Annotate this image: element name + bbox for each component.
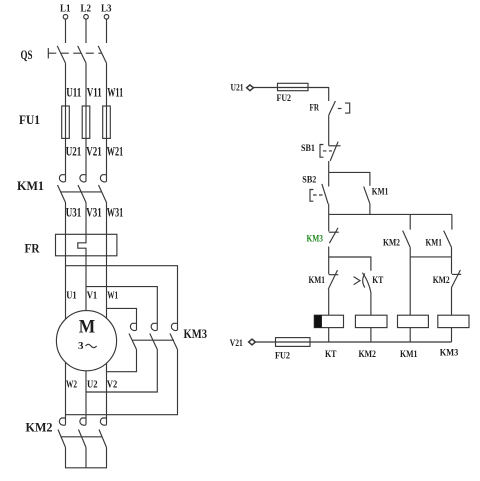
thermal contact FR dash bbox=[338, 108, 342, 110]
coil KM3 body bbox=[438, 315, 469, 327]
node L3 label bbox=[101, 3, 112, 15]
node W2 label bbox=[66, 380, 77, 391]
node U2 label bbox=[87, 380, 98, 391]
thermal relay FR box bbox=[56, 234, 117, 256]
svg-text:W21: W21 bbox=[107, 144, 124, 159]
contactor KM3 pole 1 hook bbox=[130, 323, 136, 330]
contactor KM3 linkage bbox=[132, 339, 174, 341]
svg-text:U21: U21 bbox=[66, 144, 82, 159]
svg-text:U21: U21 bbox=[231, 83, 244, 93]
motor 3-phase mark bbox=[78, 340, 97, 352]
contactor KM2 pole 2 hook bbox=[80, 418, 86, 425]
wire KT contact to KM2 coil bbox=[370, 293, 372, 316]
fuse FU1 element phase B bbox=[82, 106, 90, 138]
contactor KM1 pole 1 blade bbox=[58, 185, 66, 203]
contactor KM1 label bbox=[17, 178, 44, 193]
svg-text:KM1: KM1 bbox=[17, 178, 44, 193]
wire KM2 parallel to junction C bbox=[409, 247, 411, 257]
svg-text:KT: KT bbox=[325, 349, 337, 359]
wire junction C bar bbox=[410, 256, 451, 258]
thermal contact FR blade bbox=[329, 101, 336, 115]
contactor KM2 pole 3 hook bbox=[100, 418, 106, 425]
coil KT body bbox=[314, 315, 343, 327]
wire bottom rail bbox=[255, 341, 451, 343]
wire KM3 pole 3 to node V2 bbox=[66, 350, 178, 415]
node V11 label bbox=[87, 85, 102, 100]
wire junction to SB2 bbox=[328, 172, 330, 186]
svg-text:KM2: KM2 bbox=[26, 420, 53, 435]
wire branch W-phase to KM3 pole 1 bbox=[107, 308, 137, 330]
coil KM3 label bbox=[440, 348, 459, 358]
contactor KM3 pole 3 hook bbox=[171, 323, 177, 330]
fuse FU1 element phase A bbox=[62, 106, 70, 138]
fuse FU1 label bbox=[19, 112, 40, 127]
contact KM1 self-hold label bbox=[372, 186, 389, 196]
switch QS handle tick bbox=[47, 48, 49, 59]
node V21 control label bbox=[230, 338, 243, 348]
wire KM3 pole 2 to node W2 bbox=[86, 350, 157, 393]
coil KM2 body bbox=[355, 315, 387, 327]
wire QS to KM1 phase B bbox=[85, 63, 87, 181]
wire KM2 interlock to KM3 coil bbox=[451, 287, 453, 315]
wire KM1 lower to KT coil bbox=[328, 289, 330, 315]
svg-text:U31: U31 bbox=[66, 205, 82, 220]
pushbutton SB1 linkage dashes bbox=[323, 150, 332, 152]
svg-text:FR: FR bbox=[310, 103, 320, 113]
svg-text:U2: U2 bbox=[87, 380, 98, 391]
contact KM2 interlock wire top bbox=[451, 257, 453, 274]
thermal relay FR phase B heater jog bbox=[78, 234, 86, 256]
wire FR to motor V1 bbox=[85, 256, 87, 311]
svg-text:SB2: SB2 bbox=[302, 175, 316, 185]
svg-text:KM3: KM3 bbox=[307, 234, 324, 244]
wire FR to motor U1 bbox=[65, 256, 67, 319]
svg-text:FU2: FU2 bbox=[275, 351, 290, 361]
wire KM2 coil to rail bbox=[370, 328, 372, 342]
terminal U21 diamond bbox=[247, 85, 254, 91]
wire branch U-phase to KM3 pole 3 bbox=[66, 266, 178, 330]
svg-text:KM1: KM1 bbox=[426, 237, 443, 247]
timer contact KT blade bbox=[362, 273, 371, 293]
node L1 label bbox=[60, 3, 71, 15]
wire L2 to QS bbox=[85, 19, 87, 43]
switch QS label bbox=[21, 47, 33, 62]
contact KM3 interlock label green bbox=[307, 234, 324, 244]
svg-text:U1: U1 bbox=[66, 291, 77, 302]
wire SB1 to junction bbox=[328, 161, 330, 172]
node V2 label bbox=[107, 380, 118, 391]
node L2 label bbox=[81, 3, 92, 15]
node W11 label bbox=[107, 85, 123, 100]
svg-text:KM2: KM2 bbox=[433, 275, 450, 285]
svg-text:KM2: KM2 bbox=[383, 237, 400, 247]
coil KM1 body bbox=[398, 315, 429, 327]
svg-text:W1: W1 bbox=[107, 291, 118, 302]
contactor KM2 linkage bbox=[61, 436, 103, 438]
fuse FU2 bottom bbox=[276, 338, 311, 347]
switch QS linkage dashed bbox=[48, 52, 101, 54]
svg-text:FR: FR bbox=[25, 241, 41, 256]
svg-text:V21: V21 bbox=[230, 338, 243, 348]
svg-text:W11: W11 bbox=[107, 85, 123, 100]
contactor KM3 pole 2 hook bbox=[151, 323, 157, 330]
svg-text:KT: KT bbox=[372, 275, 383, 285]
wire motor W2 down bbox=[65, 362, 67, 424]
pushbutton SB1 label bbox=[301, 143, 315, 153]
contactor KM2 pole 1 blade bbox=[58, 430, 66, 448]
contact KM1 lower blade bbox=[328, 270, 337, 289]
contact KM1 parallel blade bbox=[444, 231, 452, 248]
contactor KM2 pole 3 blade bbox=[99, 430, 107, 448]
svg-text:QS: QS bbox=[21, 47, 33, 62]
svg-text:KM1: KM1 bbox=[309, 275, 326, 285]
timer contact KT chevron bbox=[354, 277, 360, 285]
svg-text:V21: V21 bbox=[86, 144, 102, 159]
svg-text:FU2: FU2 bbox=[277, 93, 292, 103]
contact KM1 lower label bbox=[309, 275, 326, 285]
svg-text:FU1: FU1 bbox=[19, 112, 40, 127]
contactor KM1 linkage bbox=[61, 191, 102, 193]
wire KM1 to FR phase A bbox=[65, 203, 67, 235]
contactor KM1 pole 3 blade bbox=[99, 185, 107, 203]
contact KM3 interlock blade bbox=[329, 228, 338, 243]
node U21 label bbox=[66, 144, 82, 159]
wire KM2 pole 2 to star bar bbox=[85, 447, 87, 467]
svg-text:V2: V2 bbox=[107, 380, 118, 391]
fuse FU2 top bbox=[278, 83, 309, 90]
thermal relay FR phase A through-wire bbox=[65, 234, 67, 256]
node W1 label bbox=[107, 291, 118, 302]
wire KM3 interlock to junction B bbox=[328, 247, 330, 258]
wire junction B to KT branch bbox=[329, 257, 371, 271]
contactor KM1 pole 2 blade bbox=[78, 185, 86, 203]
contact KM2 interlock label bbox=[433, 275, 450, 285]
wire KM1 to FR phase B bbox=[85, 203, 87, 235]
contactor KM2 label bbox=[26, 420, 53, 435]
node V21 label bbox=[86, 144, 102, 159]
wire FR to SB1 bbox=[328, 115, 330, 145]
wire rail node A bbox=[329, 213, 452, 215]
contact KM1 self-hold blade bbox=[364, 187, 370, 204]
contactor KM3 pole 2 blade bbox=[150, 334, 158, 350]
node U11 label bbox=[66, 85, 81, 100]
contact KM3 interlock wire top bbox=[328, 214, 330, 231]
thermal contact FR bracket bbox=[345, 103, 350, 113]
contact KM2 interlock bar bbox=[452, 273, 461, 275]
contact KM2 parallel blade bbox=[403, 231, 411, 248]
node U21 control label bbox=[231, 83, 244, 93]
terminal L3 bbox=[104, 14, 109, 19]
svg-text:V11: V11 bbox=[87, 85, 102, 100]
wire KM1 self-hold to rail bbox=[369, 204, 371, 215]
pushbutton SB2 bracket bbox=[310, 190, 313, 202]
fuse FU2 top label bbox=[277, 93, 292, 103]
contactor KM2 pole 2 blade bbox=[79, 430, 87, 448]
node W21 label bbox=[107, 144, 124, 159]
svg-text:SB1: SB1 bbox=[301, 143, 315, 153]
svg-text:L2: L2 bbox=[81, 3, 92, 15]
svg-text:U11: U11 bbox=[66, 85, 81, 100]
pushbutton SB2 linkage dashes bbox=[313, 194, 323, 196]
contactor KM3 pole 3 blade bbox=[170, 334, 178, 350]
fuse FU2 bottom label bbox=[275, 351, 290, 361]
contact KM2 parallel label bbox=[383, 237, 400, 247]
svg-text:KM2: KM2 bbox=[359, 349, 377, 359]
terminal V21 diamond bbox=[249, 339, 256, 345]
svg-text:KM3: KM3 bbox=[440, 348, 459, 358]
wire FR to motor W1 bbox=[106, 256, 108, 318]
svg-text:KM3: KM3 bbox=[184, 326, 208, 341]
wire QS to KM1 phase C bbox=[106, 63, 108, 181]
node U1 label bbox=[66, 291, 77, 302]
pushbutton SB1 bracket bbox=[320, 145, 323, 158]
node V1 label bbox=[87, 291, 98, 302]
coil KM1 label bbox=[400, 349, 418, 359]
wire L1 to QS bbox=[65, 19, 67, 43]
contactor KM3 label bbox=[184, 326, 208, 341]
thermal relay FR phase C through-wire bbox=[106, 234, 108, 256]
wire KM2 star bar bbox=[66, 447, 107, 467]
contact KM3 interlock bar bbox=[329, 231, 339, 233]
wire junction C to KM1 coil bbox=[409, 257, 411, 315]
svg-text:M: M bbox=[79, 317, 96, 338]
contact KM2 parallel wire top bbox=[409, 214, 411, 229]
switch QS pole 1 blade bbox=[57, 46, 65, 63]
wire motor U2 down bbox=[85, 371, 87, 425]
terminal L1 bbox=[63, 14, 68, 19]
switch QS pole 2 blade bbox=[78, 46, 86, 63]
switch QS pole 3 blade bbox=[98, 46, 106, 63]
svg-text:L3: L3 bbox=[101, 3, 112, 15]
contactor KM3 pole 1 blade bbox=[129, 334, 137, 350]
svg-text:KM1: KM1 bbox=[372, 186, 389, 196]
svg-text:L1: L1 bbox=[60, 3, 71, 15]
fuse FU1 element phase C bbox=[103, 106, 111, 138]
pushbutton SB1 blade bbox=[330, 142, 338, 161]
contactor KM1 pole 3 hook bbox=[100, 175, 106, 182]
timer contact KT delay arc bbox=[363, 274, 365, 288]
svg-text:3: 3 bbox=[78, 340, 84, 352]
wire KM1 parallel to junction C bbox=[451, 247, 453, 257]
svg-text:W31: W31 bbox=[107, 205, 124, 220]
wire motor V2 down bbox=[106, 363, 108, 424]
contactor KM1 pole 1 hook bbox=[59, 175, 65, 182]
wire L3 to QS bbox=[106, 19, 108, 43]
wire KT coil to rail bbox=[328, 328, 330, 342]
coil KM2 label bbox=[359, 349, 377, 359]
thermal relay FR label bbox=[25, 241, 41, 256]
svg-text:W2: W2 bbox=[66, 380, 77, 391]
contactor KM2 pole 1 hook bbox=[59, 418, 65, 425]
thermal contact FR label bbox=[310, 103, 320, 113]
contact KM1 lower bar bbox=[329, 274, 338, 276]
wire junction to KM1 aux branch bbox=[329, 172, 370, 185]
wire KM3 coil to rail bbox=[451, 328, 453, 342]
svg-text:V31: V31 bbox=[86, 205, 102, 220]
motor M circle bbox=[56, 311, 116, 371]
node U31 label bbox=[66, 205, 82, 220]
wire SB2 to rail bbox=[328, 204, 330, 215]
pushbutton SB2 label bbox=[302, 175, 316, 185]
terminal L2 bbox=[84, 14, 89, 19]
pushbutton SB1 bar bbox=[329, 145, 341, 147]
wire KM1 coil to rail bbox=[409, 328, 411, 342]
pushbutton SB2 blade bbox=[322, 184, 328, 204]
contact KM1 parallel label bbox=[426, 237, 443, 247]
wire branch V-phase to KM3 pole 2 bbox=[86, 287, 157, 330]
wire KM3 pole 1 to node U2 bbox=[107, 350, 137, 372]
svg-text:KM1: KM1 bbox=[400, 349, 418, 359]
contact KM1 lower wire top bbox=[328, 257, 330, 274]
node V31 label bbox=[86, 205, 102, 220]
contact KM1 parallel wire top bbox=[451, 214, 453, 229]
wire QS to KM1 phase A bbox=[65, 63, 67, 181]
wire KM1 to FR phase C bbox=[106, 203, 108, 235]
timer contact KT label bbox=[372, 275, 383, 285]
motor M letter bbox=[79, 317, 96, 338]
node W31 label bbox=[107, 205, 124, 220]
contactor KM1 pole 2 hook bbox=[80, 175, 86, 182]
wire U21 to corner bbox=[253, 88, 328, 102]
svg-text:V1: V1 bbox=[87, 291, 98, 302]
coil KT label bbox=[325, 349, 337, 359]
contact KM2 interlock blade bbox=[452, 270, 461, 288]
